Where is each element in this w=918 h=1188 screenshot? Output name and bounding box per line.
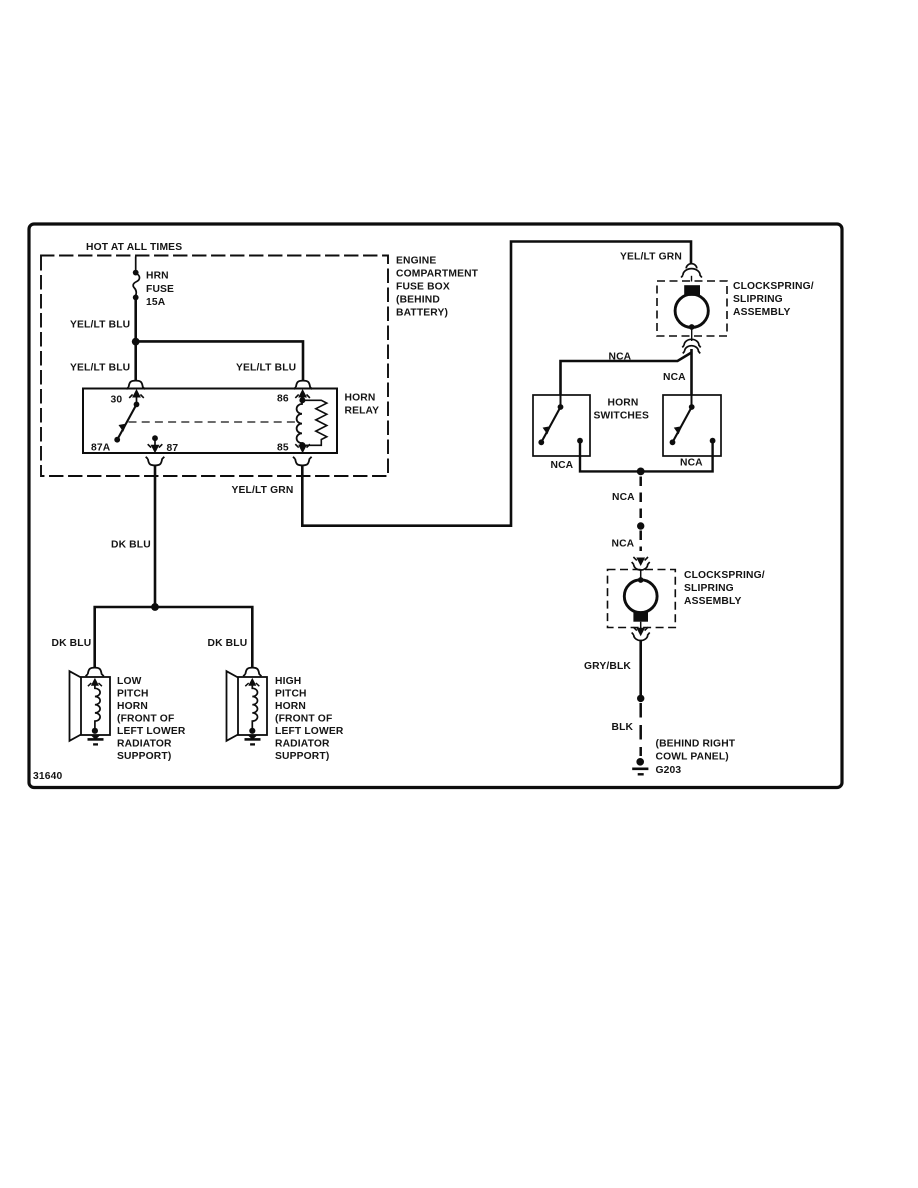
high pitch horn ground [249, 728, 255, 734]
ground G203 [636, 758, 644, 766]
svg-text:NCA: NCA [551, 460, 574, 471]
svg-text:SLIPRING: SLIPRING [733, 294, 783, 305]
svg-text:SWITCHES: SWITCHES [594, 411, 650, 422]
svg-text:(BEHIND: (BEHIND [396, 295, 440, 306]
wire clockspring 1 to horn switches (NCA) [690, 349, 693, 395]
connector at low pitch horn [86, 668, 104, 677]
svg-text:RELAY: RELAY [345, 406, 380, 417]
wire junction to relay pin 30 [134, 342, 137, 381]
svg-text:YEL/LT GRN: YEL/LT GRN [620, 252, 682, 263]
svg-text:31640: 31640 [33, 771, 63, 782]
relay resistor [302, 400, 326, 445]
wire relay 87 down (DK BLU) [154, 465, 157, 607]
low pitch horn [70, 671, 111, 741]
clockspring/slipring assembly 1 (dashed box) [657, 281, 727, 336]
svg-text:NCA: NCA [680, 458, 703, 469]
svg-text:G203: G203 [656, 765, 682, 776]
border frame [29, 224, 842, 788]
dashed wire BLK to ground [639, 703, 642, 756]
clockspring 2 contact square [633, 612, 648, 621]
wire junction right branch to relay pin 86 [136, 341, 303, 381]
svg-text:YEL/LT GRN: YEL/LT GRN [232, 485, 294, 496]
svg-text:PITCH: PITCH [275, 689, 307, 700]
arrow into clockspring 2 connector [637, 558, 645, 566]
svg-text:DK BLU: DK BLU [52, 638, 92, 649]
dashed wire NCA down 2 [639, 531, 642, 552]
relay coil [299, 397, 305, 403]
svg-text:85: 85 [277, 443, 289, 454]
svg-text:30: 30 [111, 395, 123, 406]
svg-text:GRY/BLK: GRY/BLK [584, 661, 631, 672]
wire clockspring 2 down (GRY/BLK) [639, 641, 642, 695]
engine compartment fuse box (dashed) [41, 256, 388, 477]
horn switch right box [663, 395, 721, 456]
clockspring 2 slip ring [624, 580, 657, 613]
svg-text:COMPARTMENT: COMPARTMENT [396, 269, 479, 280]
connector at relay pin 86 [294, 381, 313, 390]
svg-text:BATTERY): BATTERY) [396, 308, 448, 319]
splice node [637, 522, 644, 529]
svg-text:(BEHIND RIGHT: (BEHIND RIGHT [656, 739, 736, 750]
connector below relay pin 87 [146, 457, 165, 466]
relay pin 87 arrow [152, 435, 158, 441]
wire horn branches [95, 603, 253, 668]
svg-text:YEL/LT BLU: YEL/LT BLU [70, 320, 130, 331]
svg-text:PITCH: PITCH [117, 689, 149, 700]
connector below clockspring 2 [637, 628, 645, 636]
svg-text:LEFT LOWER: LEFT LOWER [275, 726, 344, 737]
relay pin 86 arrow [295, 390, 310, 401]
svg-text:LEFT LOWER: LEFT LOWER [117, 726, 186, 737]
horn switch left box [533, 395, 590, 456]
clockspring/slipring assembly 2 (dashed box) [608, 570, 676, 628]
svg-text:HORN: HORN [275, 701, 306, 712]
svg-text:CLOCKSPRING/: CLOCKSPRING/ [733, 281, 814, 292]
svg-text:DK BLU: DK BLU [208, 638, 248, 649]
connector below relay pin 85 [293, 457, 312, 466]
horn relay box [83, 389, 337, 454]
svg-text:SLIPRING: SLIPRING [684, 583, 734, 594]
svg-text:ASSEMBLY: ASSEMBLY [733, 307, 790, 318]
junction node [132, 338, 140, 346]
clockspring 1 slip ring [675, 294, 708, 327]
svg-text:HORN: HORN [117, 701, 148, 712]
wire fuse to junction [134, 300, 137, 343]
svg-text:RADIATOR: RADIATOR [117, 739, 172, 750]
relay switch armature [134, 402, 140, 408]
horn switch left contacts [560, 395, 562, 407]
svg-text:ENGINE: ENGINE [396, 256, 436, 267]
connector below clockspring 1 [682, 339, 700, 353]
connector above clockspring 2 [632, 562, 650, 570]
svg-text:HRN: HRN [146, 271, 169, 282]
wire relay 85 to clockspring (YEL/LT GRN) [302, 242, 691, 526]
svg-text:HORN: HORN [608, 398, 639, 409]
svg-text:HORN: HORN [345, 393, 376, 404]
svg-text:NCA: NCA [612, 539, 635, 550]
svg-text:NCA: NCA [609, 351, 632, 362]
svg-text:YEL/LT BLU: YEL/LT BLU [236, 363, 296, 374]
wire left switch to junction [580, 441, 641, 472]
clockspring 1 contact square [684, 285, 700, 296]
horn switch right contacts [691, 395, 693, 407]
svg-text:SUPPORT): SUPPORT) [275, 751, 329, 762]
svg-text:NCA: NCA [612, 492, 635, 503]
svg-text:RADIATOR: RADIATOR [275, 739, 330, 750]
svg-text:NCA: NCA [663, 372, 686, 383]
relay pin 85 arrow [299, 445, 307, 453]
dashed wire NCA down [639, 477, 642, 522]
connector at relay pin 30 [126, 381, 145, 390]
svg-text:(FRONT OF: (FRONT OF [275, 714, 332, 725]
high pitch horn [227, 671, 268, 741]
svg-text:YEL/LT BLU: YEL/LT BLU [70, 363, 130, 374]
svg-text:DK BLU: DK BLU [111, 540, 151, 551]
connector above clockspring 1 [681, 264, 702, 282]
low pitch horn ground [92, 728, 98, 734]
svg-text:ASSEMBLY: ASSEMBLY [684, 596, 741, 607]
svg-text:15A: 15A [146, 297, 166, 308]
svg-text:BLK: BLK [612, 722, 634, 733]
svg-text:CLOCKSPRING/: CLOCKSPRING/ [684, 570, 765, 581]
svg-text:87A: 87A [91, 443, 111, 454]
junction node horns [151, 603, 159, 611]
svg-text:LOW: LOW [117, 676, 142, 687]
svg-text:SUPPORT): SUPPORT) [117, 751, 171, 762]
connector at high pitch horn [243, 668, 261, 677]
svg-text:FUSE BOX: FUSE BOX [396, 282, 450, 293]
svg-text:(FRONT OF: (FRONT OF [117, 714, 174, 725]
svg-text:HOT AT ALL TIMES: HOT AT ALL TIMES [86, 242, 182, 253]
splice node [637, 695, 644, 702]
svg-text:87: 87 [167, 443, 179, 454]
wire from HOT bus to fuse [135, 257, 137, 271]
svg-text:HIGH: HIGH [275, 676, 301, 687]
relay actuator dashed link [129, 421, 298, 423]
junction node switches [637, 468, 645, 476]
svg-text:COWL PANEL): COWL PANEL) [656, 752, 729, 763]
relay pin 30 arrow [129, 390, 144, 405]
fuse HRN FUSE 15A [133, 270, 140, 301]
svg-text:86: 86 [277, 394, 289, 405]
svg-text:FUSE: FUSE [146, 284, 174, 295]
wire right switch to junction [641, 441, 713, 472]
